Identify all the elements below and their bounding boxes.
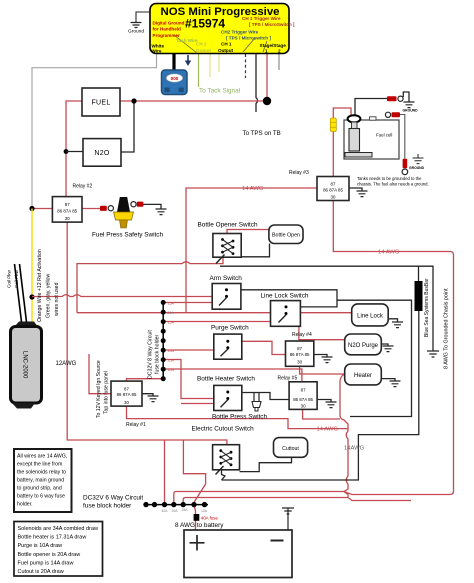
wire: red stage 1 wire down to TPS node	[266, 54, 268, 101]
wire: red main solenoid supply down right side with hops	[340, 374, 348, 498]
svg-text:To 12V Keyed Ign Source: To 12V Keyed Ign Source	[96, 360, 102, 418]
wire: black relay R3 pin85 to ground	[349, 188, 362, 191]
wire: black stub junction to N2O box	[66, 151, 83, 153]
wire: black arm switch and line-lock chain to lower frame	[241, 290, 412, 417]
wire: red 10A fuse to relay R5 pin87	[163, 369, 302, 382]
N2O Purge solenoid	[345, 334, 382, 355]
svg-text:000: 000	[171, 76, 179, 81]
wire: red drop to bottom fuse strip at 164	[164, 440, 166, 505]
ground symbol GND-tank-side	[413, 154, 424, 164]
terminal: red crimp tank top	[387, 96, 397, 101]
wire: red relay R3 86 feed 14AWG from 20A line	[186, 188, 317, 313]
svg-text:N2O Purge: N2O Purge	[348, 343, 379, 349]
tank vent cap	[370, 117, 377, 120]
note box: all wires are 14 AWG	[14, 449, 72, 512]
tach interface module	[162, 70, 188, 95]
svg-text:Orange Wire +12 Ret Activation: Orange Wire +12 Ret Activation	[37, 249, 43, 322]
svg-text:DC32V 6 Way Circuit: DC32V 6 Way Circuit	[83, 495, 143, 502]
svg-text:Bottle heater is 17.31A draw: Bottle heater is 17.31A draw	[18, 535, 87, 541]
svg-text:[ TPS / Microswitch ]: [ TPS / Microswitch ]	[226, 36, 271, 41]
svg-text:30: 30	[331, 194, 336, 199]
wire: red arm-switch feed with hops over verticals	[32, 295, 212, 297]
svg-text:86 87A 85: 86 87A 85	[117, 392, 137, 397]
svg-text:Bottle opener is 20A draw: Bottle opener is 20A draw	[18, 552, 81, 558]
svg-text:86 87A 85: 86 87A 85	[323, 188, 343, 193]
leader line CH1 trigger	[243, 38, 255, 52]
battery	[184, 530, 292, 578]
svg-text:14 AWG: 14 AWG	[242, 186, 264, 192]
Heater solenoid	[345, 364, 382, 385]
svg-text:Arm Switch: Arm Switch	[210, 275, 243, 282]
svg-text:Stage/Stage: Stage/Stage	[260, 43, 287, 48]
wire: red FUEL box left to vertical feed	[66, 101, 82, 197]
svg-text:for Handheld: for Handheld	[153, 27, 182, 32]
svg-text:Solenoids are 34A combied draw: Solenoids are 34A combied draw	[18, 526, 98, 532]
svg-text:12AWG: 12AWG	[56, 361, 77, 367]
wire: gray stage 2 stub	[278, 54, 280, 70]
svg-text:GROUND: GROUND	[409, 166, 425, 170]
relay R2	[52, 197, 82, 223]
Bottle Open solenoid	[269, 225, 303, 244]
fuel cell tank	[344, 120, 399, 159]
wire: red 20A fuse to bottle heater switch (upper)	[163, 360, 214, 399]
svg-text:87: 87	[331, 181, 336, 186]
fuse block: DC32V 8-way vertical strip	[161, 300, 166, 381]
svg-text:LNC-2000: LNC-2000	[21, 351, 27, 379]
wire: black bottle opener bus to busbar ground	[220, 266, 433, 351]
wire: red bottom return to fuse strip	[174, 492, 450, 505]
FUEL solenoid box	[82, 88, 120, 116]
wire: red 8AWG battery feed from supply line	[183, 440, 205, 505]
svg-text:Relay #3: Relay #3	[289, 170, 309, 176]
svg-text:Output: Output	[218, 48, 234, 53]
wire: red relay R5 pin30 joining supply	[303, 409, 340, 419]
wire: red relay R1 pin87 from fuse strip bottom	[127, 379, 164, 381]
ground symbol GND-R5	[326, 402, 337, 408]
wire: red 20A feed line to line lock switch	[77, 312, 352, 314]
svg-text:30: 30	[124, 400, 129, 405]
relay R3	[317, 177, 349, 201]
svg-text:Coil Pkw: Coil Pkw	[7, 269, 12, 288]
svg-text:All wires are 14 AWG,: All wires are 14 AWG,	[17, 454, 67, 460]
ground symbol GND-press-switch	[156, 209, 167, 215]
svg-text:20A: 20A	[168, 311, 175, 315]
wire: black relay R4 pin85 to ground	[314, 355, 327, 358]
wire: gray tank bonding wire down right side	[400, 115, 405, 159]
wire: red feed to bottle heater switch (lower)	[181, 403, 214, 405]
relay R4	[286, 341, 314, 366]
svg-text:30: 30	[65, 216, 70, 221]
svg-text:Fuel pump is 14A draw: Fuel pump is 14A draw	[18, 560, 74, 566]
svg-text:15A: 15A	[182, 508, 189, 512]
ground symbol GND-chassis-point	[427, 351, 439, 357]
wire: black Heater solenoid to ground	[381, 379, 395, 381]
ground symbol GND-R4	[322, 357, 333, 363]
wire: red bottle opener switch to Bottle Open solenoid	[227, 230, 269, 241]
purge switch (SPST)	[214, 334, 242, 359]
svg-text:battery to 6 way fuse: battery to 6 way fuse	[17, 494, 65, 500]
wire: black battery ground strap	[282, 508, 294, 530]
svg-text:20A: 20A	[172, 509, 179, 513]
wire: red fuse to pump terminal	[333, 108, 351, 118]
terminal: red crimp tank right	[392, 112, 401, 117]
relay R5	[289, 382, 317, 410]
wire: red bottle-opener circuit C-feed with hop	[77, 257, 223, 313]
svg-text:1: 1	[265, 49, 268, 54]
svg-text:DC32V 8 Way Circuit: DC32V 8 Way Circuit	[148, 330, 154, 379]
wire: black busbar top stub	[418, 266, 420, 281]
svg-text:15A: 15A	[168, 301, 175, 305]
svg-text:Line Lock Switch: Line Lock Switch	[261, 293, 309, 300]
label: digital ground	[153, 21, 185, 38]
svg-text:86 87A 85: 86 87A 85	[293, 397, 313, 402]
svg-text:Wire: Wire	[152, 49, 162, 54]
svg-text:87: 87	[297, 346, 302, 351]
note box: solenoid current draws	[14, 522, 103, 577]
wire: ground lead from controller to ground symbol	[136, 12, 150, 22]
svg-text:10A: 10A	[201, 509, 208, 513]
svg-text:30: 30	[301, 404, 306, 409]
wire: red relay R3 pin30 to right bus 14AWG	[333, 201, 453, 495]
svg-text:FUEL: FUEL	[91, 100, 110, 107]
svg-text:8 AWG To Grounded Chasis point: 8 AWG To Grounded Chasis point	[444, 288, 450, 369]
svg-text:Relay #5: Relay #5	[278, 376, 298, 382]
controller: NOS Mini Progressive yellow box	[150, 4, 289, 54]
bottle heater switch (SPST)	[214, 385, 242, 410]
wire: black busbar bottom to cutout switch chain	[222, 311, 419, 480]
wire: white wire (gray) from controller to relay R2 coil	[32, 54, 157, 209]
wire: red relay R4 pin30 to heater junction	[300, 366, 344, 374]
svg-text:Output: Output	[196, 48, 212, 53]
svg-text:87: 87	[65, 202, 70, 207]
wire: red relay R2 pin30 down and across to cutout switch	[67, 222, 227, 448]
fuel pump cap	[348, 115, 361, 122]
node: junction on yellow wire for arm feed	[29, 294, 34, 299]
svg-text:Bottle Press Switch: Bottle Press Switch	[212, 414, 267, 421]
ring terminal lower	[402, 169, 408, 175]
wire: black line lock switch joining chain	[300, 300, 337, 307]
svg-text:Relay #2: Relay #2	[73, 184, 93, 190]
wire: black Cuttout solenoid return S-path	[240, 457, 292, 471]
ground symbol GND-controller	[131, 23, 142, 28]
arm switch (SPST)	[212, 284, 241, 310]
wire: black fuel pump positive to ring terminal	[355, 99, 387, 117]
svg-text:fuse block holder: fuse block holder	[83, 503, 132, 510]
svg-text:Heater: Heater	[354, 373, 372, 379]
svg-text:[ TPS / MicroSwitch ]: [ TPS / MicroSwitch ]	[249, 22, 295, 27]
node A: big junction to TPS	[263, 97, 271, 105]
svg-text:Bottle Heater Switch: Bottle Heater Switch	[197, 376, 255, 383]
wire: black N2O Purge solenoid to ground	[381, 344, 388, 346]
svg-text:8 AWG to battery: 8 AWG to battery	[175, 522, 224, 529]
label: fuse amp ratings vertical strip	[168, 301, 175, 372]
relay R1	[111, 381, 142, 406]
wire: red junction to Heater solenoid	[343, 374, 346, 377]
svg-text:battery, main ground: battery, main ground	[17, 478, 64, 484]
wire: black heater switch through pressure switch to relay R5 pin86	[242, 393, 289, 400]
svg-text:Cuttout: Cuttout	[282, 446, 299, 452]
svg-text:Ground: Ground	[128, 29, 144, 35]
ring terminal left	[108, 206, 113, 211]
svg-text:CH 1 Trigger Wire: CH 1 Trigger Wire	[242, 16, 281, 21]
svg-text:14AWG: 14AWG	[344, 446, 365, 452]
ground symbol GND-R3	[357, 191, 368, 197]
svg-text:40A: 40A	[162, 509, 169, 513]
line lock switch (SPST)	[271, 301, 301, 327]
terminal: red vertical crimp lower	[403, 159, 408, 169]
svg-text:the solenoids relay to: the solenoids relay to	[17, 470, 66, 476]
svg-text:GROUND: GROUND	[403, 109, 419, 113]
svg-text:30: 30	[297, 360, 302, 365]
svg-text:Bottle Open: Bottle Open	[272, 232, 300, 238]
svg-text:#15974: #15974	[185, 17, 225, 31]
wire: red purge switch to relay R4 pin86	[242, 341, 286, 354]
svg-text:Tach Wire: Tach Wire	[176, 38, 198, 43]
wire: black relay R1 pin85 to ground	[142, 394, 153, 396]
svg-text:CH2 Trigger Wire: CH2 Trigger Wire	[221, 30, 259, 35]
svg-text:Purge Switch: Purge Switch	[211, 325, 249, 332]
svg-text:holder.: holder.	[17, 502, 33, 508]
wire: pale CH2 output stub 2	[218, 54, 220, 72]
svg-text:Digital Ground: Digital Ground	[153, 21, 185, 26]
svg-text:To Tack Signal: To Tack Signal	[199, 88, 240, 95]
bottom fuse strip: 6-way fuse block	[143, 502, 208, 507]
fuel pump neck	[352, 122, 358, 129]
wire: yellow +12 activation wire down to LNC-2000	[31, 209, 33, 323]
node: junction white wire / relay feed	[29, 206, 34, 211]
bottle opener switch (DPDT)	[213, 234, 241, 264]
bottle pressure switch	[252, 393, 261, 412]
wire: red keyed ignition feed to relay R1 pin86	[89, 354, 111, 394]
svg-text:87: 87	[124, 386, 129, 391]
svg-text:87: 87	[301, 387, 306, 392]
wire: black pressure switch to ground	[143, 204, 161, 209]
svg-text:10A: 10A	[168, 349, 175, 353]
fuel pressure safety switch (Hobbs)	[114, 197, 134, 228]
wire: black relay R5 pin85 to ground	[317, 400, 331, 403]
wire: red 15A fuse to arm switch lower pin	[163, 302, 212, 304]
wire: green tach wire	[198, 54, 200, 87]
wire: black Line Lock solenoid to ground	[388, 319, 397, 322]
svg-text:Cutout is 20A draw: Cutout is 20A draw	[18, 569, 64, 575]
svg-text:Blue Sea Systems BusBar: Blue Sea Systems BusBar	[424, 278, 430, 337]
svg-text:10A: 10A	[168, 368, 175, 372]
wire: red 10A fuse to purge switch	[163, 349, 214, 351]
svg-text:CH 2: CH 2	[196, 42, 207, 47]
fuel pump body	[349, 129, 360, 152]
fuse: 40A battery fuse square	[194, 514, 200, 521]
node: junction on feed at N2O	[64, 149, 69, 154]
wire: thick black white-wire into tach module	[172, 54, 175, 70]
node: junction at FUEL output	[131, 98, 136, 103]
electric cutout switch (DPDT)	[213, 445, 240, 475]
wire: black Bottle Open solenoid return S-path	[241, 244, 269, 257]
svg-text:2: 2	[278, 49, 281, 54]
fuel pump base plate	[345, 153, 372, 158]
svg-text:To TPS on TB: To TPS on TB	[243, 130, 281, 137]
svg-text:Electric Cutout Switch: Electric Cutout Switch	[192, 426, 255, 433]
svg-text:Fuel cell: Fuel cell	[376, 133, 392, 138]
wire: dashed navy CH2 trigger stub	[245, 54, 247, 78]
wire: red bus FUEL box to TPS node	[120, 100, 267, 102]
ring terminal right	[131, 202, 136, 207]
wire: red from white-wire node to relay R2 pin 86	[32, 208, 52, 210]
svg-text:14 AWG: 14 AWG	[378, 250, 400, 256]
arrow: navy down arrow below controller	[185, 55, 191, 66]
svg-text:Tanks needs to be grounded to: Tanks needs to be grounded to the	[357, 176, 422, 181]
fuse: yellow inline fuel pump fuse	[330, 118, 336, 132]
ring terminal tank top	[398, 96, 403, 101]
ring terminal tank right	[385, 112, 390, 117]
wire: red bottom branch to battery square fuse	[183, 498, 411, 505]
svg-text:chassis. The fuel also needs: chassis. The fuel also needs a ground.	[357, 182, 429, 187]
svg-text:Relay #4: Relay #4	[292, 332, 312, 338]
svg-text:Tap into fuse panel: Tap into fuse panel	[104, 371, 110, 414]
svg-text:Relay #1: Relay #1	[126, 422, 146, 428]
svg-text:fuse block holder: fuse block holder	[155, 335, 161, 374]
svg-text:14 AWG: 14 AWG	[317, 427, 339, 433]
wire: black ring terminal to tank ground	[403, 92, 409, 102]
svg-text:86 87A 85: 86 87A 85	[290, 352, 310, 357]
N2O solenoid box	[83, 139, 121, 167]
terminal: red crimp left of pressure switch	[100, 206, 107, 211]
svg-text:20A: 20A	[168, 359, 175, 363]
svg-text:wires not used: wires not used	[54, 282, 60, 316]
svg-text:15A: 15A	[168, 321, 175, 325]
wire: red relay R3 pin87 to fuel pump fuse	[332, 132, 334, 177]
Line Lock solenoid	[352, 304, 389, 326]
svg-text:N2O: N2O	[94, 150, 110, 157]
ground symbol GND-linelock	[392, 322, 403, 328]
Cuttout solenoid	[274, 438, 308, 458]
leader line tach wire	[174, 35, 197, 53]
note box 1 text	[17, 454, 67, 508]
wire: red relay R1 pin30 to cutout supply 14AWG	[127, 406, 349, 429]
terminal: red crimp right of pressure switch	[137, 202, 144, 207]
svg-text:Green, gray, yellow: Green, gray, yellow	[46, 273, 52, 318]
svg-text:40A fuse: 40A fuse	[201, 516, 219, 521]
wire: red 15A fuse to relay R4 pin87 and N2O Purge solenoid	[163, 322, 345, 340]
svg-text:CH 1: CH 1	[221, 42, 232, 47]
label: bottom fuse amp ratings	[162, 508, 208, 513]
svg-text:Purge is 10A draw: Purge is 10A draw	[18, 543, 63, 549]
leader line stage	[263, 41, 267, 52]
svg-text:Fuel Press Safety Switch: Fuel Press Safety Switch	[92, 232, 163, 239]
svg-text:Line Lock: Line Lock	[357, 313, 384, 319]
svg-text:to ground strip, and: to ground strip, and	[17, 486, 62, 492]
busbar: Blue Sea Systems	[415, 281, 423, 311]
ground symbol GND-heater	[390, 381, 401, 387]
wire: red through 40A fuse to battery positive	[194, 505, 196, 530]
LNC-2000 ignition box	[11, 322, 42, 409]
svg-text:Bottle Opener Switch: Bottle Opener Switch	[198, 222, 258, 229]
coil pack wires	[15, 264, 22, 322]
svg-text:86 87A 85: 86 87A 85	[57, 208, 77, 213]
note box 2 text	[18, 526, 98, 575]
ground symbol GND-purge	[383, 346, 394, 352]
wire: black CH1 output to TPS with hop	[256, 54, 258, 112]
ground symbol GND-R1	[148, 396, 159, 402]
svg-text:except the line from: except the line from	[17, 462, 62, 468]
wire: red relay R2 pin85 to pressure switch	[82, 208, 101, 210]
wire: pale CH2 output stub 1	[209, 54, 211, 77]
ground symbol GND-tank-top	[404, 102, 415, 108]
wire: black link junction to N2O box right side	[121, 101, 134, 152]
svg-text:Coil Pkw: Coil Pkw	[14, 269, 19, 288]
